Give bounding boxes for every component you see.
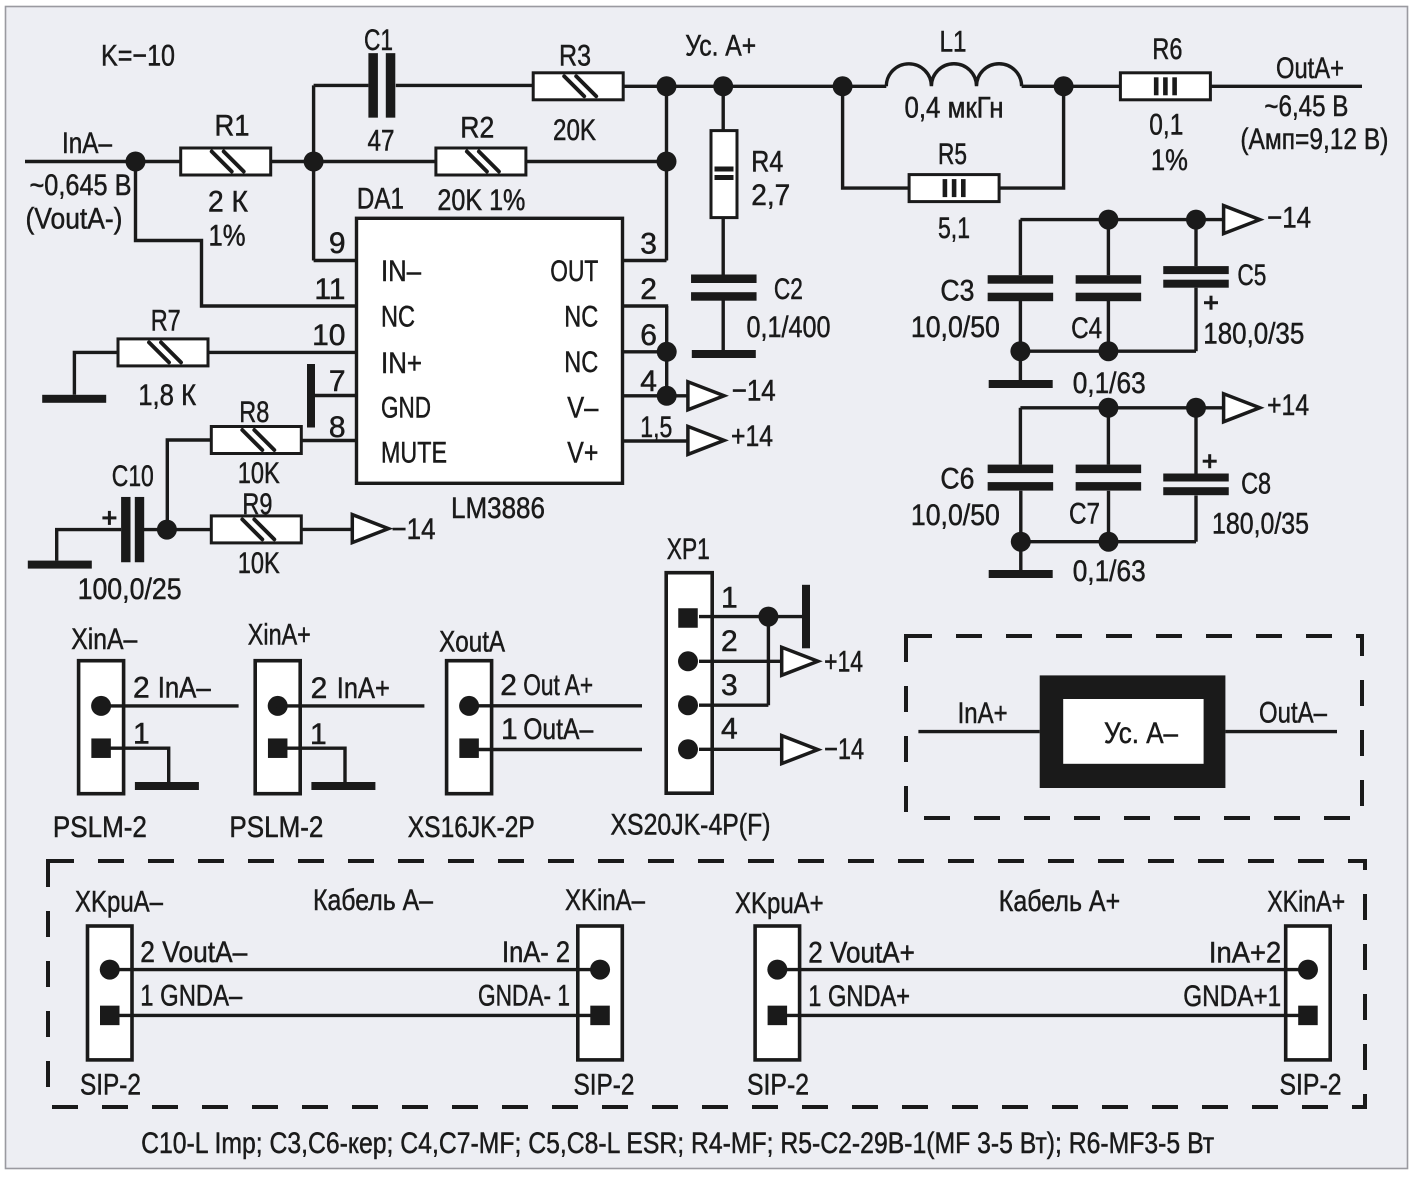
node R1-R2-C1 [304,152,324,172]
connector XP1 body [666,573,712,794]
svg-text:C2: C2 [774,273,803,306]
svg-text:10K: 10K [238,457,280,490]
svg-text:1: 1 [501,713,518,746]
ground at pin 7 [307,364,315,428]
svg-text:R9: R9 [242,488,272,521]
wire XP1 gnd vertical [767,617,770,706]
svg-text:2 К: 2 К [208,186,248,219]
svg-text:1,8 К: 1,8 К [138,379,196,412]
connector XinA- body [79,661,124,794]
wire R8 left [167,440,211,530]
svg-text:2,7: 2,7 [751,179,790,212]
wire C3 top lead [1019,220,1022,276]
capacitor C4 [1076,275,1142,301]
svg-text:(VoutA-): (VoutA-) [26,203,123,236]
wire C4 top lead [1107,220,1110,276]
svg-text:OUT: OUT [550,255,598,288]
node C10-R8-R9 [157,520,177,540]
wire XP1 pin1 to gnd [699,615,802,618]
svg-text:10,0/50: 10,0/50 [911,311,1000,344]
svg-text:0,1: 0,1 [1149,108,1183,141]
svg-text:2: 2 [133,672,150,705]
wire pin1,5 V+ to triangle [622,439,688,442]
svg-text:5,1: 5,1 [938,212,970,245]
wire C5 bottom lead [1194,288,1197,352]
wire C1 to R3 [396,84,533,87]
svg-text:NC: NC [381,301,415,334]
svg-text:PSLM-2: PSLM-2 [53,811,147,844]
ground below C2 [692,350,756,358]
svg-text:100,0/25: 100,0/25 [78,573,182,606]
wire XoutA pin2 [467,704,642,707]
svg-text:NC: NC [564,346,598,379]
svg-text:OutA–: OutA– [523,713,593,746]
wire GND row Kabel A- [110,1014,600,1017]
svg-text:NC: NC [564,301,598,334]
ground below C6 [989,570,1053,578]
svg-text:−14: −14 [1267,201,1311,234]
svg-text:−14: −14 [732,375,776,408]
svg-text:InA+: InA+ [337,672,390,705]
svg-text:GNDA- 1: GNDA- 1 [478,980,570,1013]
pin square XKinA- [590,1006,610,1026]
svg-text:9: 9 [329,227,346,260]
wire C7 bottom lead [1107,491,1110,542]
svg-text:XinA–: XinA– [71,623,137,656]
svg-text:R2: R2 [460,112,494,145]
svg-text:GNDA+1: GNDA+1 [1183,980,1281,1013]
svg-text:SIP-2: SIP-2 [747,1068,809,1101]
svg-text:(Амп=9,12 В): (Амп=9,12 В) [1240,123,1388,156]
svg-text:1: 1 [721,581,738,614]
svg-text:R5: R5 [938,138,967,171]
power flag -14 XP1 [782,736,818,764]
wire C1 branch vertical [312,85,315,260]
wire pin7 to ground [311,394,357,397]
dashed box cables [48,861,1365,1107]
svg-text:V–: V– [567,392,598,425]
svg-text:2: 2 [721,625,738,658]
svg-text:4: 4 [640,365,657,398]
wire feedback from InA node [136,162,357,307]
svg-text:20K: 20K [553,114,596,147]
svg-text:InA+2: InA+2 [1209,937,1281,970]
svg-text:R7: R7 [151,304,181,337]
pin square XKpuA- [100,1006,120,1026]
wire XinA- pin2 [100,704,239,707]
pin2 circle XP1 [678,651,698,671]
svg-text:XKpuA+: XKpuA+ [735,887,824,920]
svg-text:−14: −14 [392,513,436,546]
svg-text:C1: C1 [364,24,393,57]
capacitor C10 [121,497,144,562]
wire pin6 stub [622,350,666,353]
wire InA+ to amp [918,730,1039,733]
capacitor C6 [988,465,1054,491]
svg-text:2: 2 [500,669,517,702]
svg-text:10K: 10K [238,547,280,580]
wire pin2 stub [622,304,668,307]
connector XKpuA- body [88,926,133,1060]
svg-text:IN–: IN– [381,255,421,288]
svg-text:0,1/63: 0,1/63 [1073,555,1146,588]
svg-text:GND: GND [381,392,431,425]
svg-text:SIP-2: SIP-2 [1280,1068,1342,1101]
svg-text:−14: −14 [824,733,864,766]
svg-text:C3: C3 [940,274,974,307]
svg-text:C8: C8 [1241,467,1271,500]
wire C6 bottom lead [1019,491,1022,570]
pin circle XKpuA+ [767,960,787,980]
svg-text:47: 47 [368,125,395,158]
node pin4 [657,386,677,406]
connector XKinA- body [578,926,623,1060]
svg-text:InA–: InA– [62,127,112,160]
svg-text:11: 11 [314,273,345,306]
svg-text:1 GNDA–: 1 GNDA– [140,980,242,1013]
connector XKpuA+ body [755,926,800,1060]
power flag -14 at V- [688,382,724,410]
svg-text:3: 3 [721,669,738,702]
svg-text:K=−10: K=−10 [101,40,175,73]
wire C5 top lead [1194,220,1197,267]
dashed box Us.A- [906,636,1362,818]
pin circle XKpuA- [100,960,120,980]
inductor L1 [886,64,1021,87]
wire XoutA pin1 [467,748,642,751]
svg-text:Кабель А–: Кабель А– [313,884,433,917]
connector XoutA body [447,661,492,794]
svg-text:IN+: IN+ [381,347,422,380]
svg-text:LM3886: LM3886 [451,492,545,525]
svg-text:0,1/400: 0,1/400 [747,311,831,344]
pin circle XKinA+ [1298,960,1318,980]
capacitor C8 [1163,474,1229,496]
wire pin3 stub [622,259,666,262]
svg-text:2: 2 [640,273,657,306]
pin square XKpuA+ [768,1006,788,1026]
wire rail2 bottom [1021,540,1196,543]
wire R9 to triangle [302,528,353,531]
wire GND row Kabel A+ [777,1014,1308,1017]
connector XinA+ body [255,661,300,794]
svg-text:R4: R4 [751,146,783,179]
svg-text:C10: C10 [112,460,154,493]
node Us.A+ left [657,76,677,96]
wire R6 to OutA+ [1210,85,1362,88]
connector XKinA+ body [1286,926,1331,1060]
svg-text:Кабель А+: Кабель А+ [999,885,1120,918]
resistor R6 [1120,73,1210,100]
pin4 circle XP1 [678,739,698,759]
svg-text:C5: C5 [1237,259,1266,292]
svg-text:SIP-2: SIP-2 [80,1068,141,1101]
wire R2 to node [526,160,668,163]
wire L1 parallel left [843,86,910,188]
ground below R7 [42,395,106,403]
svg-text:MUTE: MUTE [381,437,447,470]
svg-text:1%: 1% [209,220,246,253]
pin circle XKinA- [590,960,610,980]
capacitor C5 [1163,266,1229,288]
svg-text:+14: +14 [824,645,863,678]
pin3 circle XP1 [678,695,698,715]
svg-text:Ус. А+: Ус. А+ [685,30,756,63]
wire InA- row [25,160,181,163]
wire C2 to ground [722,301,725,352]
svg-text:0,4 мкГн: 0,4 мкГн [905,92,1004,125]
node rail2 C7 [1098,398,1118,418]
wire XP1 pin3 [699,704,768,707]
resistor R2 [436,148,526,175]
ground XinA- [135,782,199,790]
amp block Us.A- outer [1040,675,1226,788]
wire OUT vertical [665,86,668,260]
capacitor C7 [1076,465,1142,491]
svg-text:InA+: InA+ [958,697,1008,730]
svg-text:6: 6 [640,319,657,352]
wire XP1 pin2 to +14 [699,660,782,663]
wire C1 left branch [314,84,369,87]
svg-text:1: 1 [133,717,150,750]
wire XP1 pin4 to -14 [699,748,782,751]
node rail1 C4 [1098,210,1118,230]
wire XinA+ pin1 to gnd [277,748,345,782]
svg-text:C4: C4 [1071,312,1102,345]
wire rail1 bottom [1020,350,1196,353]
node rail2 C8 [1186,398,1206,418]
svg-text:R1: R1 [215,110,250,143]
wire R5 to L1 right [999,86,1064,188]
wire C6 top lead [1019,408,1022,465]
svg-text:10: 10 [312,319,345,352]
plus sign C10 [102,511,116,525]
svg-text:3: 3 [640,227,657,260]
svg-text:Out A+: Out A+ [523,669,593,702]
resistor R5 [909,175,999,202]
resistor R9 [211,516,301,543]
svg-text:10,0/50: 10,0/50 [911,499,1000,532]
svg-text:180,0/35: 180,0/35 [1203,318,1304,351]
power flag +14 rail2 [1224,394,1260,422]
node rail2 bottom C6 [1011,532,1031,552]
wire R4 to C2 [722,218,725,275]
svg-text:OutA–: OutA– [1259,697,1327,730]
svg-text:R8: R8 [239,396,269,429]
plus sign C8 [1203,454,1217,468]
node L1 right [1054,76,1074,96]
resistor R8 [211,427,301,454]
svg-text:2 VoutA–: 2 VoutA– [140,936,247,969]
wire C3 bottom lead [1019,301,1022,380]
wire Vout row Kabel A- [110,968,600,971]
resistor R7 [118,339,208,366]
wire R8 to pin8 MUTE [302,439,357,442]
node rail2 bottom C7 [1099,532,1119,552]
svg-text:8: 8 [329,411,346,444]
wire R1 to node [271,160,436,163]
op-amp U1 LM3886 body [357,218,623,483]
wire R7 to pin10 [208,351,356,354]
svg-text:7: 7 [329,365,346,398]
wire XinA- pin1 to gnd [101,748,169,782]
svg-text:Ус. А–: Ус. А– [1104,717,1178,750]
wire C8 bottom lead [1194,496,1197,542]
svg-text:~0,645 В: ~0,645 В [30,169,132,202]
ground XinA+ [311,782,375,790]
resistor R1 [181,148,271,175]
svg-text:PSLM-2: PSLM-2 [229,811,323,844]
capacitor C1 [368,53,395,118]
svg-text:DA1: DA1 [357,183,404,216]
svg-text:2 VoutA+: 2 VoutA+ [808,937,915,970]
svg-text:XP1: XP1 [667,533,710,566]
svg-text:C6: C6 [940,463,974,496]
svg-text:0,1/63: 0,1/63 [1073,367,1146,400]
svg-text:L1: L1 [940,25,967,58]
wire pin9 stub [314,259,357,262]
wire pin4 V- to triangle [622,394,688,397]
node rail1 bottom C4 [1098,341,1118,361]
svg-text:1 GNDA+: 1 GNDA+ [808,980,910,1013]
svg-text:R6: R6 [1152,33,1182,66]
power flag +14 at V+ [688,426,724,454]
wire node Us.A+ to L1 [665,85,886,88]
svg-text:1,5: 1,5 [640,411,672,444]
svg-text:XS20JK-4P(F): XS20JK-4P(F) [611,809,771,842]
wire Vout row Kabel A+ [777,968,1308,971]
svg-text:1%: 1% [1151,144,1188,177]
node InA- [126,152,146,172]
wire NC vertical [665,306,668,396]
resistor R4 [711,131,737,218]
wire rail1 top [1020,218,1223,221]
svg-text:~6,45 В: ~6,45 В [1264,90,1348,123]
svg-text:4: 4 [721,712,738,745]
node R2 out [657,152,677,172]
wire C10 node to R9 [144,528,212,531]
wire R4 top [722,86,725,130]
wire XinA+ pin2 [276,704,424,707]
svg-text:+14: +14 [731,420,773,453]
svg-text:C10-L Imp; C3,C6-кер; C4,C7-: C10-L Imp; C3,C6-кер; C4,C7-MF; C5,C8-L … [141,1127,1214,1160]
ground XP1 vertical bar [802,585,810,649]
ground below C3 [989,380,1053,388]
node L1 left [833,76,853,96]
svg-text:C7: C7 [1069,498,1100,531]
svg-text:+14: +14 [1267,389,1309,422]
power flag -14 rail1 [1224,206,1260,234]
svg-text:SIP-2: SIP-2 [574,1068,635,1101]
wire rail2 top [1020,406,1223,409]
wire R7 left [74,352,118,394]
plus sign C5 [1204,296,1218,310]
svg-text:2: 2 [311,672,328,705]
node rail1 bottom C3 [1010,341,1030,361]
capacitor C2 [691,275,757,301]
wire C10 left [57,530,121,561]
resistor R3 [533,73,623,100]
amp block Us.A- inner [1063,699,1203,764]
power flag -14 at R9 [352,515,388,543]
power flag +14 XP1 [782,647,818,675]
svg-text:V+: V+ [567,437,598,470]
wire C7 top lead [1107,408,1110,465]
capacitor C3 [988,275,1054,301]
svg-text:XS16JK-2P: XS16JK-2P [408,811,535,844]
svg-text:XinA+: XinA+ [248,619,311,652]
node pin6 [657,342,677,362]
node rail1 C5 [1186,210,1206,230]
wire amp to OutA- [1225,730,1337,733]
svg-text:1: 1 [310,718,327,751]
wire C4 bottom lead [1107,301,1110,352]
ground below C10 [28,561,92,569]
pin square XKinA+ [1298,1006,1318,1026]
pin1 square XP1 [678,608,698,628]
wire R3 to node Us.A+ [623,85,668,88]
svg-text:R3: R3 [559,40,591,73]
svg-text:20K 1%: 20K 1% [437,184,525,217]
svg-text:XKpuA–: XKpuA– [75,886,163,919]
node R4 tap [713,76,733,96]
svg-text:180,0/35: 180,0/35 [1212,508,1309,541]
svg-text:XoutA: XoutA [439,626,505,659]
svg-text:XKinA–: XKinA– [565,884,645,917]
wire L1 to R6 [1022,85,1121,88]
svg-text:XKinA+: XKinA+ [1267,886,1345,919]
svg-text:OutA+: OutA+ [1276,52,1344,85]
svg-text:InA–: InA– [158,672,211,705]
node XP1 pin1 [758,607,778,627]
wire C8 top lead [1194,408,1197,474]
svg-text:InA- 2: InA- 2 [502,936,570,969]
